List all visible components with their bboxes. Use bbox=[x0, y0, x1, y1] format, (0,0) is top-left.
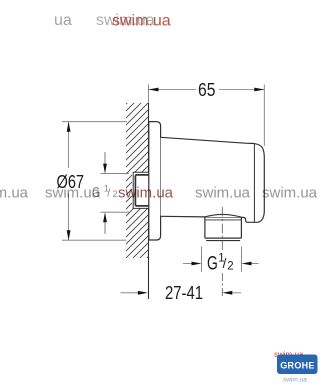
dim G1/2 extension and arrow wires bbox=[183, 247, 259, 273]
svg-text:G: G bbox=[207, 254, 218, 275]
wall face line bbox=[148, 103, 150, 299]
svg-text:swim.ua: swim.ua bbox=[118, 185, 174, 202]
outlet nipple bbox=[205, 217, 242, 238]
svg-text:65: 65 bbox=[198, 79, 215, 100]
flange bbox=[149, 122, 161, 240]
dim 65 right arrowhead bbox=[254, 88, 264, 92]
svg-text:/: / bbox=[107, 187, 111, 199]
outlet shoulder bbox=[205, 214, 242, 217]
dim O67 bottom arrowhead bbox=[67, 230, 71, 240]
body end-cap inner line bbox=[253, 144, 255, 223]
svg-text:27-41: 27-41 bbox=[165, 282, 203, 303]
svg-text:GROHE: GROHE bbox=[280, 361, 315, 371]
grey G 1/2 label bbox=[92, 183, 118, 201]
GROHE logo box bbox=[277, 355, 318, 375]
wall socket recess inner thread bbox=[135, 175, 148, 206]
svg-text:ua: ua bbox=[54, 12, 72, 29]
inlet dim bottom arrow wire bbox=[104, 222, 106, 233]
svg-text:/: / bbox=[223, 256, 227, 271]
svg-text:swim.ua: swim.ua bbox=[112, 13, 171, 30]
svg-text:swim.ua: swim.ua bbox=[262, 185, 318, 202]
dim G1/2 value label bbox=[207, 252, 234, 274]
svg-text:2: 2 bbox=[227, 260, 233, 272]
wall socket recess outer bbox=[133, 172, 148, 208]
svg-text:swim.ua: swim.ua bbox=[283, 377, 307, 384]
inlet dim top arrow wire bbox=[104, 153, 106, 164]
watermark overlay bbox=[0, 12, 318, 202]
body outline bbox=[161, 137, 265, 222]
wall hatching bbox=[100, 68, 162, 312]
inlet dim top arrowhead bbox=[103, 164, 107, 174]
svg-text:swim.ua: swim.ua bbox=[195, 185, 251, 202]
dim O67 extension and dimension lines bbox=[62, 122, 127, 241]
svg-text:2: 2 bbox=[113, 189, 118, 200]
dim 27-41 left arrowhead bbox=[138, 291, 148, 295]
centerline outlet bbox=[221, 207, 223, 251]
inlet dim bottom arrowhead bbox=[103, 212, 107, 222]
dim 27-41 right arrow wire bbox=[232, 292, 241, 294]
dim G1/2 left arrowhead bbox=[192, 262, 202, 266]
inlet dim extension lines bbox=[101, 152, 130, 234]
dim 65 left arrowhead bbox=[149, 88, 159, 92]
dim 27-41 left arrow wire bbox=[121, 292, 139, 294]
dim 27-41 right arrowhead bbox=[222, 291, 232, 295]
dim 65 extension and dimension lines bbox=[149, 85, 265, 147]
dim G1/2 right arrowhead bbox=[242, 262, 252, 266]
svg-text:swim.ua: swim.ua bbox=[0, 185, 29, 202]
dim O67 top arrowhead bbox=[67, 122, 71, 132]
svg-text:swim.ua: swim.ua bbox=[45, 185, 101, 202]
